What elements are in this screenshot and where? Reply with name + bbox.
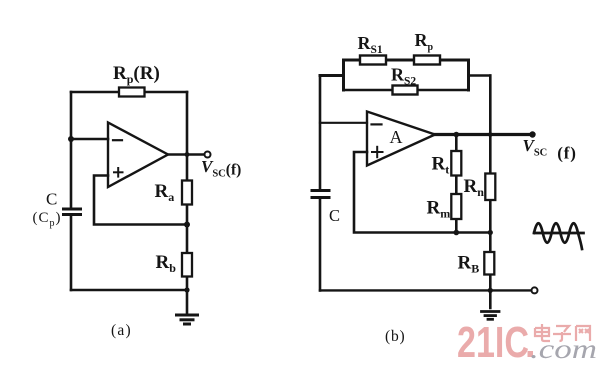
node Rn bottom junction (488, 230, 493, 235)
svg-text:Rb: Rb (156, 252, 177, 275)
wire non-inverting loop (b) (354, 152, 490, 233)
wire left stub (b) (320, 74, 344, 77)
svg-text:RS1: RS1 (358, 33, 383, 56)
wire Rt-Rm column (b) (455, 135, 458, 233)
resistor RS2 body (393, 86, 418, 95)
op-amp A minus sign (372, 123, 382, 125)
svg-text:21IC: 21IC (457, 318, 529, 367)
node output-Rt junction (454, 132, 460, 138)
resistor RB body (484, 252, 494, 275)
svg-text:VSC(f): VSC(f) (523, 136, 577, 163)
svg-text:C: C (46, 190, 57, 209)
wire bottom (b) (320, 289, 532, 291)
resistor RS1 body (360, 56, 386, 65)
resistor Rb body (182, 253, 192, 277)
terminal Vsc dot (b) (529, 131, 535, 137)
wire right column (b) (489, 76, 492, 233)
svg-text:Rm: Rm (427, 198, 451, 221)
svg-text:VSC(f): VSC(f) (201, 157, 241, 180)
wire right stub (b) (469, 74, 491, 76)
wire inverting input (b) (320, 122, 367, 124)
wire top branch (b) (344, 59, 469, 62)
svg-text:RS2: RS2 (391, 65, 416, 88)
node bottom junction (a) (184, 287, 189, 292)
svg-text:A: A (390, 127, 403, 147)
svg-text:Ra: Ra (155, 181, 175, 204)
node output junction (a) (185, 152, 190, 157)
op-amp A plus sign (372, 147, 383, 157)
node Rm bottom junction (454, 230, 460, 236)
wire bottom branch (b) (344, 89, 469, 91)
resistor Rp(R) body (119, 88, 145, 97)
wire right node vertical (b) (467, 60, 470, 90)
watermark pink dot (528, 351, 534, 357)
wire below capacitor (b) (319, 198, 322, 291)
svg-text:Rp: Rp (415, 30, 434, 53)
watermark 网 (576, 326, 590, 341)
wire right column (a) (186, 92, 189, 315)
ground (b) (482, 312, 500, 320)
terminal bottom right open circle (b) (532, 287, 538, 293)
svg-text:(b): (b) (385, 328, 405, 345)
wire RB column (b) (489, 233, 492, 309)
svg-text:C: C (329, 206, 340, 225)
node bottom junction (b) (488, 288, 493, 293)
op-amp A1 minus sign (113, 139, 122, 141)
wire below capacitor (a) (70, 215, 73, 291)
ground (a) (177, 315, 198, 324)
wire output (a) (168, 153, 205, 156)
capacitor C (b) (312, 191, 329, 198)
svg-text:RB: RB (458, 253, 480, 276)
wire bottom (a) (71, 289, 187, 292)
sine wave symbol (534, 223, 584, 249)
resistor Rm body (451, 194, 461, 219)
svg-text:(Cp): (Cp) (33, 210, 62, 229)
node output-right-column crossing (b) (488, 132, 493, 137)
op-amp A triangle (367, 112, 435, 166)
resistor Rn body (485, 174, 495, 201)
svg-text:Rt: Rt (432, 154, 450, 177)
svg-text:Rp(R): Rp(R) (113, 63, 160, 86)
svg-text:.com: .com (530, 334, 597, 364)
watermark 子 (553, 326, 571, 341)
resistor Rt body (451, 151, 461, 176)
wire inverting input (a) (71, 138, 108, 141)
resistor Ra body (182, 181, 192, 205)
node minus input (a) (68, 136, 74, 142)
svg-text:Rn: Rn (464, 176, 485, 199)
wire left node vertical (b) (342, 60, 345, 90)
watermark 电 (535, 324, 550, 341)
terminal Vsc(f) open circle (a) (205, 152, 211, 158)
wire output (b) (435, 133, 533, 136)
wire non-inverting loop (a) (94, 176, 187, 225)
resistor RP body (414, 56, 440, 65)
wire top feedback (a) (71, 91, 187, 94)
wire left vertical (a) (70, 92, 73, 209)
op-amp A1 triangle (108, 123, 168, 188)
op-amp A1 plus sign (114, 168, 123, 177)
wire left column (b) (319, 76, 322, 191)
capacitor C (Cp) (64, 209, 81, 215)
svg-text:(a): (a) (111, 322, 132, 339)
node Ra-Rb junction (184, 222, 190, 228)
